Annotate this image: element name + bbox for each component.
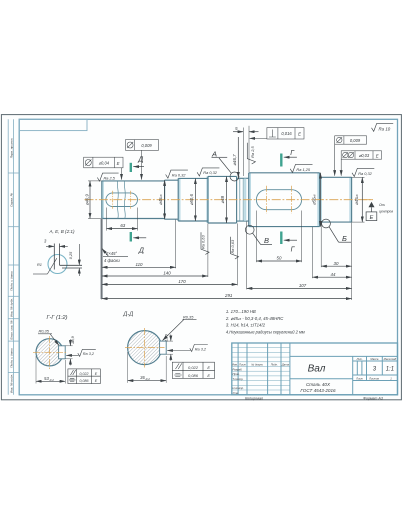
cutting plane D bottom stroke: [131, 232, 146, 255]
general roughness Ra 10: [372, 123, 394, 131]
svg-text:0,016: 0,016: [281, 131, 292, 136]
svg-text:44: 44: [331, 272, 336, 277]
svg-text:2×45°: 2×45°: [105, 251, 117, 256]
inner drawing frame: [19, 119, 397, 395]
svg-text:Копировал: Копировал: [245, 396, 263, 400]
D-D dim 36: [128, 352, 167, 383]
svg-text:Н.контр.: Н.контр.: [233, 386, 245, 390]
svg-text:А, Е, В (2:1): А, Е, В (2:1): [48, 229, 74, 234]
svg-text:Т.контр.: Т.контр.: [233, 377, 244, 381]
svg-text:0,25: 0,25: [69, 251, 73, 259]
svg-text:E: E: [298, 131, 301, 136]
title block frame: [232, 343, 398, 395]
left margin column lines: [7, 119, 9, 395]
svg-text:Ось: Ось: [379, 203, 385, 207]
detail callout V circle: [245, 225, 254, 234]
Ra 0.63 rotated shoulder S4: [230, 237, 239, 259]
svg-text:⌀56к6: ⌀56к6: [312, 194, 317, 205]
right end face: [351, 177, 353, 222]
svg-text:Масштаб: Масштаб: [384, 357, 397, 361]
svg-text:0,022: 0,022: [80, 372, 89, 376]
shaft outline: [102, 173, 352, 227]
svg-text:⌀48: ⌀48: [220, 195, 225, 203]
main centerline: [85, 199, 374, 201]
dia 45k6 right dim: [352, 177, 365, 222]
Ra 0.32 mark S3: [197, 168, 219, 176]
svg-text:Разраб.: Разраб.: [233, 367, 243, 371]
dia 40.9 dim: [88, 181, 102, 219]
callout A label and leader: [211, 150, 231, 174]
svg-text:⌀45к6: ⌀45к6: [354, 194, 359, 205]
detail callout B circle: [322, 219, 331, 228]
svg-text:R1: R1: [37, 262, 42, 267]
svg-text:Подп. и дата: Подп. и дата: [10, 271, 14, 291]
svg-text:Д-Д: Д-Д: [122, 312, 133, 318]
svg-text:R0,35: R0,35: [183, 314, 194, 319]
frame perpendicularity 0.016 E: [250, 128, 305, 139]
svg-text:291: 291: [224, 293, 233, 298]
chamfer highlight bands: [103, 173, 350, 226]
svg-text:Формат A3: Формат A3: [363, 396, 383, 400]
svg-text:Справ. №: Справ. №: [10, 192, 14, 207]
dim 170: [102, 223, 238, 285]
svg-text:R0,35: R0,35: [39, 329, 50, 334]
svg-text:Ra 2,5: Ra 2,5: [250, 146, 255, 158]
svg-text:Пров.: Пров.: [233, 372, 240, 376]
svg-text:Г-Г (1:2): Г-Г (1:2): [46, 315, 67, 321]
svg-text:Утв.: Утв.: [233, 391, 239, 395]
svg-text:0,022: 0,022: [188, 365, 199, 370]
svg-text:Перв. примен.: Перв. примен.: [10, 138, 14, 159]
dim 291: [102, 298, 352, 300]
svg-text:3. Н14, h14, ±IT14/2: 3. Н14, h14, ±IT14/2: [226, 323, 266, 328]
center tick S5 slot right: [291, 186, 293, 214]
margin box separators: [8, 173, 19, 372]
svg-text:Д: Д: [138, 248, 144, 255]
svg-text:⌀46,7: ⌀46,7: [232, 154, 237, 166]
svg-text:1:1: 1:1: [386, 367, 394, 373]
detail R1 label: [33, 258, 57, 274]
svg-text:0,009: 0,009: [141, 143, 152, 148]
svg-text:Ra 3,2: Ra 3,2: [83, 352, 95, 356]
svg-text:12,9: 12,9: [165, 333, 169, 341]
svg-text:4 фаски: 4 фаски: [104, 258, 120, 263]
svg-text:Ra 3,2: Ra 3,2: [195, 347, 207, 351]
detail callout A circle: [230, 172, 239, 181]
svg-text:Масса: Масса: [370, 357, 378, 361]
relief groove inner lines: [244, 179, 246, 221]
G-G Ra 3.2: [66, 349, 96, 356]
break lines on S1: [117, 181, 118, 219]
dim 63: [107, 208, 138, 231]
cutting plane G top stroke: [281, 150, 297, 167]
G-G frame texts: [80, 372, 98, 383]
Ra 0.63 rotated shoulder S3: [200, 232, 209, 254]
section S4 d48: [208, 176, 237, 223]
detail groove walls: [54, 244, 82, 270]
svg-text:В: В: [264, 236, 269, 245]
svg-text:центров: центров: [379, 209, 393, 213]
svg-text:E: E: [207, 373, 210, 378]
cutting plane D top stroke: [131, 157, 144, 173]
svg-text:Д: Д: [137, 157, 143, 164]
frame cylindricity d0.04 E: [84, 157, 123, 179]
svg-text:Ra 10: Ra 10: [379, 127, 391, 132]
center tick S1 slot left: [112, 191, 114, 209]
Ra 0.32 mark S2: [166, 170, 188, 178]
dim 110: [102, 219, 176, 300]
svg-text:E: E: [370, 215, 374, 221]
svg-text:1. 170...190 НВ: 1. 170...190 НВ: [226, 309, 256, 314]
svg-text:Ra 1,25: Ra 1,25: [296, 167, 310, 172]
dim 50 keyway: [256, 211, 301, 263]
svg-text:ГОСТ 4543-2016: ГОСТ 4543-2016: [300, 388, 336, 393]
Ra 1.25 mark S5: [290, 164, 312, 172]
svg-text:⌀40,9: ⌀40,9: [85, 194, 90, 206]
callout B label and leader: [329, 227, 351, 243]
svg-text:Ra 0,32: Ra 0,32: [172, 172, 186, 177]
step S1/S2: [165, 180, 179, 219]
detail groove arc: [48, 255, 67, 274]
svg-text:⌀0,04: ⌀0,04: [99, 161, 110, 166]
svg-text:0,009: 0,009: [350, 138, 361, 143]
D-D frame texts: [188, 365, 210, 378]
svg-text:Инв. № подл.: Инв. № подл.: [10, 374, 14, 393]
D-D R0.35 label: [163, 314, 197, 340]
dia 56k6 dim: [320, 173, 322, 227]
svg-text:E: E: [376, 153, 379, 158]
dim 44: [312, 227, 351, 278]
dia 46.7 groove dim: [237, 137, 239, 178]
chamfer note 2x45: [102, 249, 128, 257]
frame runout d0.03 E: [341, 151, 381, 176]
svg-text:Дата: Дата: [281, 363, 290, 367]
svg-text:63: 63: [120, 223, 125, 228]
keyway slot S1: [106, 193, 138, 207]
svg-text:⌀45к6: ⌀45к6: [158, 194, 163, 205]
svg-text:Подп. и дата: Подп. и дата: [10, 348, 14, 368]
svg-text:E: E: [117, 161, 120, 166]
dia 50.6 dim: [194, 178, 196, 221]
G-G keyway width dim: [65, 339, 72, 365]
thick gray extension line left face: [100, 219, 102, 300]
step S5/S6: [320, 173, 352, 227]
G-G centerlines: [33, 351, 67, 353]
svg-text:4.Неуказанные радиусы скруглен: 4.Неуказанные радиусы скруглений 2 мм: [226, 329, 305, 334]
svg-text:50: 50: [277, 256, 282, 261]
cutting plane G bottom stroke: [281, 232, 297, 254]
Ra 2.5 mark S1: [97, 173, 118, 181]
Ra 0.32 mark S6: [352, 168, 374, 176]
detail dim 3: [46, 245, 68, 247]
Ra 2.5 rotated groove flank: [247, 143, 255, 164]
svg-text:2. ⌀45к6 - h0,3-0,4, 45-48HRC: 2. ⌀45к6 - h0,3-0,4, 45-48HRC: [225, 316, 284, 321]
svg-text:110: 110: [136, 262, 144, 267]
svg-text:E: E: [207, 365, 210, 370]
G-G tolerance frame parallelism: [68, 369, 100, 384]
D-D centerlines: [125, 347, 165, 349]
svg-text:Ra 0,63: Ra 0,63: [200, 235, 205, 249]
dim 30: [321, 223, 351, 301]
svg-text:Ra 0,32: Ra 0,32: [203, 170, 217, 175]
G-G dim 53: [36, 356, 65, 384]
D-D Ra 3.2: [167, 345, 208, 352]
svg-text:Листов: Листов: [368, 376, 379, 380]
svg-text:30: 30: [334, 261, 339, 266]
svg-text:Лит.: Лит.: [355, 357, 363, 361]
svg-text:⌀50,6: ⌀50,6: [189, 194, 194, 206]
svg-text:Лист: Лист: [355, 376, 364, 380]
frame roundness 0.009 right: [335, 136, 367, 176]
svg-text:0,086: 0,086: [80, 379, 89, 383]
svg-text:Взам. инв. №: Взам. инв. №: [10, 320, 14, 340]
section S5 d56: [249, 173, 320, 227]
svg-text:Вал: Вал: [308, 364, 326, 375]
center tick S5 slot left: [265, 186, 267, 214]
svg-text:⌀0,03: ⌀0,03: [359, 153, 370, 158]
dia 48 dim: [226, 176, 228, 223]
svg-text:№ докум.: № докум.: [251, 363, 263, 367]
center tick S1 slot right: [130, 191, 132, 209]
section S3 d50.6: [178, 178, 208, 221]
svg-text:Ra 2,5: Ra 2,5: [104, 176, 116, 181]
margin rotated labels: [10, 138, 14, 394]
detail dim 0.25: [78, 244, 80, 276]
svg-text:Ra 0,63: Ra 0,63: [230, 239, 235, 253]
frame roundness 0.009 left: [126, 140, 159, 180]
svg-text:170: 170: [178, 279, 186, 284]
dim texts: [85, 126, 359, 298]
sheet outer border: [1, 115, 401, 400]
callout V label and leader: [253, 233, 272, 245]
top-left designation box: [19, 119, 87, 130]
svg-text:Б: Б: [342, 234, 347, 243]
svg-text:107: 107: [299, 283, 307, 288]
svg-text:Лист: Лист: [238, 363, 247, 367]
title block texts: [232, 357, 397, 395]
relief groove zone: [237, 176, 249, 223]
D-D keyway width dim: [166, 335, 173, 361]
dia 45k6 dim: [164, 180, 166, 219]
svg-text:Инв. № дубл.: Инв. № дубл.: [10, 298, 14, 317]
section G-G circle: [36, 339, 65, 366]
G-G R0.35 label: [38, 329, 59, 346]
svg-text:⌀8,9: ⌀8,9: [71, 335, 75, 343]
svg-text:Подп.: Подп.: [271, 363, 278, 367]
svg-text:140: 140: [163, 271, 171, 276]
section S1 d40.9: [102, 181, 165, 219]
D-D tolerance frame parallelism: [172, 362, 214, 378]
datum E triangle: [366, 202, 377, 221]
dim 140: [102, 223, 208, 277]
dim 5 groove: [233, 126, 259, 176]
keyway slot S5: [256, 190, 301, 210]
svg-text:Изм.: Изм.: [232, 363, 238, 367]
section D-D circle: [128, 331, 167, 365]
svg-text:Сталь 40Х: Сталь 40Х: [306, 382, 331, 387]
dim 107: [247, 222, 352, 290]
svg-text:Ra 0,32: Ra 0,32: [358, 171, 372, 176]
svg-text:0,086: 0,086: [188, 373, 199, 378]
